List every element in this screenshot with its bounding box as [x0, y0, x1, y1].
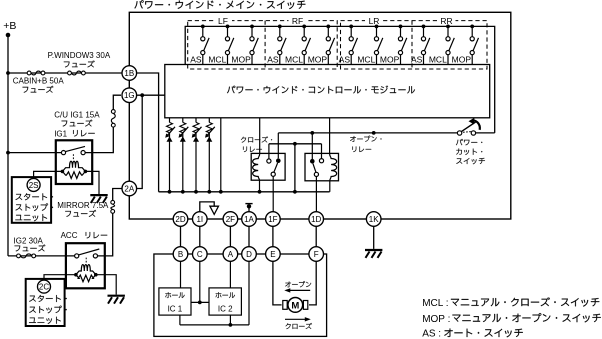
switch RR-AS [421, 25, 429, 65]
connector pin D [242, 247, 257, 262]
svg-text:2A: 2A [124, 184, 134, 193]
wire 1G to 2A [137, 95, 143, 188]
fuse CABIN+B 50A [27, 71, 45, 75]
junction open relay NO / y1 [310, 131, 314, 135]
resistor with arrow (module output 1) [165, 118, 175, 194]
switch group box LF/RF (dashed) [188, 21, 338, 69]
connector pin E [266, 247, 281, 262]
wire +B to pin 1B [8, 72, 122, 74]
wire NC tie to lower bus [294, 144, 296, 192]
connector pin 2C [38, 280, 51, 293]
connector pin B [173, 247, 188, 262]
svg-text:1G: 1G [124, 91, 135, 100]
label C/U IG1 15A フューズ [54, 111, 100, 127]
label P.WINDOW3 30A フューズ [48, 51, 111, 67]
label オープン・リレー [350, 136, 381, 152]
wire MIRROR fuse to ACC relay contact [98, 213, 113, 256]
svg-text:1I: 1I [196, 215, 203, 224]
svg-text:D: D [246, 250, 252, 259]
svg-text:+B: +B [3, 20, 16, 32]
connector pin 1A [242, 212, 257, 227]
label MCL (RR) [429, 54, 447, 64]
wire 1B to lower bus [137, 73, 159, 192]
label LR group [365, 16, 383, 26]
wire module to open relay coil [329, 118, 331, 154]
relay close box [251, 153, 285, 180]
relay IG1 box [56, 140, 92, 184]
label AS (RR) [411, 54, 423, 64]
wire fuse to pin 1G [113, 95, 121, 109]
label パワー・カット・スイッチ [456, 139, 485, 164]
label RR group [438, 16, 456, 26]
wire module to close relay coil [259, 118, 261, 154]
wire 1D to F [315, 226, 317, 246]
wire ACC coil to 2C unit [44, 275, 76, 281]
label IG2 30A フューズ [14, 237, 46, 252]
wire ACC coil to ground [96, 275, 116, 295]
hall IC 1 box [159, 288, 191, 315]
svg-text:MOP: MOP [231, 54, 251, 64]
svg-text:E: E [270, 250, 275, 259]
ground (IG1 relay) [90, 195, 107, 203]
svg-text:C: C [197, 250, 203, 259]
label クローズ・リレー [241, 136, 272, 152]
svg-text:1D: 1D [311, 215, 321, 224]
wire 1F to E [272, 226, 274, 246]
legend AS [422, 329, 523, 339]
relay open box [305, 153, 339, 180]
svg-text:2C: 2C [39, 283, 49, 292]
svg-text:2S: 2S [29, 181, 39, 190]
legend MCL [422, 297, 599, 309]
junction resistor 4 / lower bus [207, 190, 211, 194]
svg-text:ACC: ACC [61, 231, 78, 240]
junction 1K / y1 [372, 131, 376, 135]
connector pin 1K [366, 212, 381, 227]
wire 2F to A [229, 226, 231, 246]
motor M [283, 298, 308, 313]
svg-text:MOP: MOP [308, 54, 328, 64]
junction resistor 3 / lower bus [194, 190, 198, 194]
svg-text:RR: RR [440, 16, 452, 26]
svg-text:1B: 1B [124, 69, 134, 78]
svg-text:MIRROR 7.5A: MIRROR 7.5A [57, 201, 109, 210]
svg-text:AS :: AS : [422, 329, 441, 339]
svg-text:M: M [291, 300, 299, 311]
switch LF-MOP [250, 25, 258, 65]
wire IG1 coil to 2S unit [34, 171, 63, 178]
svg-text:MOP :: MOP : [422, 314, 450, 325]
wire F to motor [309, 261, 316, 305]
junction resistor 1 / lower bus [168, 190, 172, 194]
relay open coil [330, 154, 337, 192]
switch LR-MCL [374, 25, 382, 65]
fuse C/U IG1 15A [111, 110, 115, 128]
svg-text:IG1: IG1 [54, 129, 67, 138]
switch RR-MCL [446, 25, 454, 65]
switch LR-MOP [398, 25, 406, 65]
switch group box LR/RR (dashed) [341, 21, 488, 69]
label スタート・ストップ・ユニット (2S) [15, 193, 53, 221]
svg-text:AS: AS [411, 54, 423, 64]
connector pin 2F [223, 212, 238, 227]
resistor with arrow (module output 2) [179, 118, 189, 194]
switch LF-AS [201, 25, 209, 65]
ground (1K) [365, 250, 382, 258]
svg-text:LR: LR [369, 16, 380, 26]
node +B label [3, 20, 16, 32]
wire B to hall IC 1 [180, 261, 182, 288]
wire +B vertical feed with top terminal dot [6, 33, 11, 256]
svg-text:2F: 2F [226, 215, 235, 224]
wire C to hall IC link [191, 261, 209, 304]
svg-text:C/U IG1 15A: C/U IG1 15A [54, 111, 100, 120]
connector pin 1B [122, 66, 137, 81]
connector pin 1D [309, 212, 324, 227]
power window main switch boundary box [129, 12, 511, 219]
switch RF-AS [278, 25, 286, 65]
legend MOP [422, 313, 601, 325]
svg-text:2D: 2D [175, 215, 185, 224]
label スタート・ストップ・ユニット (2C) [29, 295, 67, 324]
power window control module box [165, 65, 490, 118]
label RF group [289, 16, 307, 26]
connector pin 2A [122, 181, 137, 196]
switch LR-AS [349, 25, 357, 65]
junction 1G branch [140, 93, 144, 97]
power feed symbol at pin 1A [245, 204, 252, 212]
label CABIN+B 50A フューズ [13, 77, 65, 93]
connector pin 2S [27, 178, 40, 191]
label AS (RF) [267, 54, 279, 64]
svg-text:IG2 30A: IG2 30A [14, 237, 44, 246]
junction close coil / lower bus [258, 190, 262, 194]
junction +B / fuse wire to 1B [6, 71, 10, 75]
label LF group [214, 16, 232, 26]
svg-text:MCL: MCL [357, 54, 375, 64]
label MCL (LR) [357, 54, 375, 64]
label AS (LR) [339, 54, 351, 64]
connector pin C [193, 247, 208, 262]
label: パワー・ウインド・メイン・スイッチ (title) [134, 0, 305, 9]
relay ACC box [66, 243, 105, 288]
svg-text:MCL: MCL [208, 54, 226, 64]
wire 1A to D [248, 226, 250, 246]
resistor with arrow (module output 3) [192, 118, 202, 194]
label MOP (RF) [308, 54, 328, 64]
window motor assembly box [154, 254, 327, 336]
wire +B to IG2 fuse to ACC relay contact [8, 255, 75, 257]
start stop unit 2C box [26, 279, 65, 326]
label ホール IC 2 [216, 292, 235, 313]
junction NC tie / drop to bus [293, 142, 297, 146]
label AS (LF) [190, 54, 202, 64]
fuse P.WINDOW3 30A [68, 71, 86, 75]
svg-text:IC 1: IC 1 [168, 305, 183, 314]
wire IG1 relay contact to C/U IG1 fuse [85, 127, 113, 153]
svg-text:AS: AS [339, 54, 351, 64]
wire module pin to lower bus [219, 118, 223, 194]
svg-text:CABIN+B 50A: CABIN+B 50A [13, 77, 65, 86]
svg-text:MOP: MOP [380, 54, 400, 64]
svg-text:MCL: MCL [429, 54, 447, 64]
svg-text:AS: AS [190, 54, 202, 64]
switch supply bus [185, 26, 495, 132]
switch LF-MCL [225, 25, 233, 65]
wire 1G to module [137, 94, 165, 96]
label ACC リレー [61, 231, 108, 240]
fuse IG2 30A [17, 254, 36, 258]
svg-text:AS: AS [267, 54, 279, 64]
relay IG1 coil with parallel resistor [61, 161, 88, 178]
relay open contacts and blade [310, 133, 324, 212]
label オープン with arrow [284, 281, 311, 292]
connector pin 1I [193, 212, 208, 227]
wire pin 2A to MIRROR fuse [113, 189, 122, 201]
relay close coil [253, 154, 260, 192]
svg-text:RF: RF [292, 16, 303, 26]
junction NC drop / lower bus [293, 190, 297, 194]
connector pin 1F [266, 212, 281, 227]
signal arrow at pin 1I [200, 202, 219, 215]
junction +B / IG1 relay wire [6, 151, 10, 155]
svg-text:A: A [228, 250, 234, 259]
label MOP (LF) [231, 54, 251, 64]
switch RF-MOP [326, 25, 334, 65]
relay ACC contacts and blade [75, 249, 100, 264]
wire relay NO contacts to power cut switch [278, 132, 457, 134]
connector pin A [223, 247, 238, 262]
junction resistor 2 / lower bus [181, 190, 185, 194]
connector pin 1G [122, 88, 137, 103]
connector pin 2D [173, 212, 188, 227]
svg-text:P.WINDOW3 30A: P.WINDOW3 30A [48, 51, 111, 60]
label IG1 リレー [54, 129, 94, 138]
wire IG1 coil to ground [85, 171, 99, 194]
start stop unit 2S box [12, 177, 51, 223]
label MOP (LR) [380, 54, 400, 64]
label MCL (RF) [285, 54, 303, 64]
switch RR-MOP [470, 25, 478, 65]
wire relay NC contacts tie [269, 143, 322, 145]
label パワー・ウインド・コントロール・モジュール [227, 86, 415, 94]
svg-text:IC 2: IC 2 [218, 305, 233, 314]
relay ACC coil with parallel resistor [74, 265, 98, 282]
label MIRROR 7.5A フューズ [57, 201, 109, 217]
switch RF-MCL [302, 25, 310, 65]
svg-text:F: F [314, 250, 319, 259]
hall IC 2 box [209, 288, 241, 315]
svg-text:B: B [178, 250, 183, 259]
wire E to motor [273, 261, 282, 305]
svg-text:LF: LF [218, 16, 228, 26]
relay close contacts and blade [267, 133, 281, 212]
power cut switch [457, 118, 494, 136]
label クローズ with arrow [285, 317, 312, 329]
wire +B to IG1 relay contact [8, 152, 61, 154]
svg-text:MCL: MCL [285, 54, 303, 64]
connector pin F [309, 247, 324, 262]
label ホール IC 1 [165, 292, 184, 313]
wire 1K to ground [373, 226, 375, 249]
label MOP (RR) [452, 54, 472, 64]
svg-text:MCL :: MCL : [422, 298, 448, 309]
svg-text:1K: 1K [369, 215, 379, 224]
relay IG1 contacts and blade [61, 146, 85, 160]
resistor with arrow (module output 4) [205, 118, 215, 194]
wire 2D to B [180, 226, 182, 246]
label MCL (LF) [208, 54, 226, 64]
wire D to hall IC grounds [180, 261, 249, 327]
wire A to hall IC 2 [229, 261, 231, 288]
ground (ACC relay) [108, 296, 125, 304]
lower common bus [159, 191, 330, 193]
svg-text:1F: 1F [268, 215, 277, 224]
svg-text:MOP: MOP [452, 54, 472, 64]
svg-text:1A: 1A [244, 215, 254, 224]
fuse MIRROR 7.5A [111, 200, 115, 213]
wire 1I to C [199, 226, 201, 246]
